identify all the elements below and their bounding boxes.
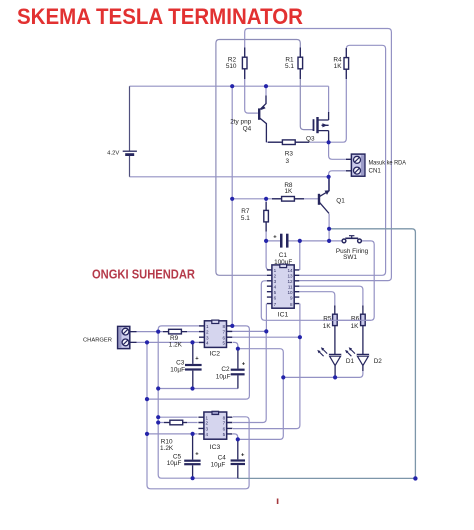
svg-text:Q4: Q4 [243, 126, 252, 133]
svg-text:4: 4 [206, 341, 209, 346]
wire: R8 row battery to Q1 base [232, 198, 318, 200]
svg-text:D1: D1 [346, 358, 355, 365]
node battery- / CN1 pin2 / Q1 collector junction [327, 175, 331, 179]
svg-text:+: + [242, 362, 246, 368]
svg-text:10µF: 10µF [167, 460, 182, 467]
resistor R2 [226, 57, 247, 70]
svg-text:10µF: 10µF [170, 367, 185, 374]
svg-text:2: 2 [274, 274, 277, 279]
wire: dark component leads [130, 48, 363, 479]
wire: x158 vertical to cap bottom rail [158, 332, 238, 479]
svg-text:4: 4 [274, 284, 277, 289]
LED D2 [345, 347, 382, 365]
svg-text:5.1: 5.1 [285, 63, 294, 70]
wire: R3 row Q3 source R4 bottom and CN1 pin1 link [266, 69, 347, 159]
node R8 row / VCC column junction [230, 197, 234, 201]
LED D1 [317, 347, 354, 365]
svg-text:10µF: 10µF [211, 462, 226, 469]
capacitor C2 [216, 362, 246, 381]
svg-text:R7: R7 [241, 208, 250, 215]
wire: SW1 right terminal to IC1 pin 3 [261, 241, 374, 320]
wire: IC2 pin 5 C2 top net to C4 top and IC3 pin 5 [233, 342, 283, 439]
svg-text:1: 1 [206, 415, 209, 420]
node IC3 pin4 row junction [145, 432, 149, 436]
svg-text:IC3: IC3 [210, 444, 221, 451]
node C3 top / IC2 pin4 junction [190, 340, 194, 344]
node charger pin2 junction [145, 340, 149, 344]
connector CHARGER [83, 326, 130, 348]
svg-text:1K: 1K [351, 323, 360, 330]
svg-text:11: 11 [288, 284, 293, 289]
wire: IC3 pin 4 row [147, 433, 198, 435]
svg-text:2: 2 [206, 421, 209, 426]
svg-text:D2: D2 [374, 358, 383, 365]
resistor R4 [333, 57, 348, 70]
node charger pin1 / R9 / IC2 pin1 junction [156, 330, 160, 334]
transistor Q1 [319, 177, 345, 214]
svg-text:1K: 1K [323, 323, 332, 330]
node cap rail left junction [156, 386, 160, 390]
resistor R5 [323, 314, 337, 330]
node Q3 source / R3 / R4 / CN1 junction [327, 140, 331, 144]
svg-text:C2: C2 [221, 366, 230, 373]
wire: C1 left to IC1 pin 1 riser [266, 241, 272, 270]
wire: R9 right lead to IC2 pin 2 [181, 331, 204, 333]
svg-text:5: 5 [223, 432, 226, 437]
wire: C1 right to IC1 pin 14 riser [299, 241, 301, 270]
svg-text:R5: R5 [323, 315, 332, 322]
node R10 / IC3 pin2 junction [156, 420, 160, 424]
node bottom-right corner junction [413, 476, 417, 480]
svg-text:2: 2 [206, 330, 209, 335]
capacitor C5 [167, 452, 201, 467]
node battery+ / VCC column junction [230, 84, 234, 88]
svg-text:3: 3 [286, 158, 290, 165]
wire: R2 bottom to Q4 base [245, 69, 258, 113]
node IC2 pin8 / VCC column junction [230, 324, 234, 328]
node IC1 pin8 / IC2 pin6 junction [298, 335, 302, 339]
resistor R7 [241, 208, 268, 222]
svg-text:C1: C1 [279, 252, 288, 259]
node D1 cathode junction [333, 375, 337, 379]
svg-text:1.2K: 1.2K [160, 445, 174, 452]
svg-text:5: 5 [274, 290, 277, 295]
wire: outer bracket R2 top to IC1 pin 12 [245, 29, 392, 281]
svg-text:6: 6 [223, 427, 226, 432]
capacitor C1 [273, 234, 292, 266]
svg-text:7: 7 [223, 421, 226, 426]
switch SW1 push firing [336, 236, 369, 261]
wire: battery plus rail to Q3 drain [130, 86, 329, 113]
svg-text:1: 1 [274, 268, 277, 273]
svg-text:Masuk ke RDA: Masuk ke RDA [369, 159, 407, 166]
svg-text:6: 6 [222, 335, 225, 340]
svg-text:R6: R6 [351, 315, 360, 322]
svg-text:1.2K: 1.2K [169, 341, 183, 348]
node R7 top / R8 junction [264, 197, 268, 201]
svg-text:CHARGER: CHARGER [83, 337, 112, 343]
svg-text:3: 3 [274, 279, 277, 284]
svg-text:SW1: SW1 [343, 254, 357, 261]
svg-text:6: 6 [274, 295, 277, 300]
svg-text:10µF: 10µF [216, 373, 231, 380]
red artifact mark [277, 499, 279, 505]
node C1 row / Q1 emitter junction [327, 239, 331, 243]
node R7 bottom / C1 left junction [264, 239, 268, 243]
svg-text:C3: C3 [176, 359, 185, 366]
wire: Q1 emitter line to right edge vertical and cap rail [238, 229, 416, 479]
svg-text:Q1: Q1 [336, 198, 345, 205]
svg-text:4.2V: 4.2V [107, 151, 119, 157]
title text [17, 4, 303, 29]
IC U1 (IC1, 14-pin DIP) [267, 264, 299, 319]
node Q1 emitter / teal line junction [327, 227, 331, 231]
svg-text:8: 8 [223, 415, 226, 420]
node LED rail / C2 net junction [281, 375, 285, 379]
svg-text:2ty pnp: 2ty pnp [230, 119, 251, 126]
node IC2 pin5 / C2 top junction [236, 347, 240, 351]
wire: IC3 pin 1 row [158, 416, 197, 418]
resistor R1 [285, 57, 303, 70]
svg-text:7: 7 [222, 330, 225, 335]
wire: charger pin1 row and IC2 pin 1 riser [130, 326, 205, 332]
svg-text:5.1: 5.1 [241, 215, 250, 222]
author text [92, 267, 196, 282]
svg-text:5: 5 [222, 341, 225, 346]
mosfet Q3 [306, 117, 329, 142]
wire: IC1 pin 11 to R6 top [299, 286, 363, 307]
wire: battery minus rail with CN1 pin2 link and Q1 collector riser [130, 171, 348, 191]
wire: R7 vertical risers [265, 199, 267, 241]
capacitor C3 [170, 356, 201, 374]
svg-text:1K: 1K [284, 188, 293, 195]
node Q4 emitter junction [264, 84, 268, 88]
wire: IC1 pin 7 net to IC2 pin 7 and IC3 pin 7 [227, 304, 267, 423]
svg-text:7: 7 [274, 302, 277, 307]
wire: IC2 pin 8 loop to charger net [147, 326, 249, 399]
svg-text:510: 510 [226, 63, 237, 70]
svg-text:+: + [195, 356, 199, 362]
connector CN1 [351, 154, 406, 176]
svg-text:R3: R3 [285, 151, 294, 158]
node IC1 pin7 / IC2 pin7 junction [264, 329, 268, 333]
svg-text:12: 12 [287, 279, 293, 284]
svg-text:3: 3 [206, 427, 209, 432]
resistor R3 [282, 140, 295, 165]
svg-text:9: 9 [290, 295, 293, 300]
svg-text:CN1: CN1 [369, 167, 382, 174]
node IC2 pin8 loop junction [145, 397, 149, 401]
IC U3 (IC3, 8-pin DIP) [198, 411, 232, 451]
transistor Q4 [230, 96, 266, 143]
svg-text:3: 3 [206, 335, 209, 340]
wire: C1 row to SW1 left [266, 240, 343, 242]
IC U2 (IC2, 8-pin DIP) [199, 320, 232, 358]
wire: Q4 emitter drop [265, 86, 267, 104]
battery 4.2V [107, 86, 137, 177]
node C5 bottom junction [191, 476, 195, 480]
wire: middle bracket IC1 pin 2 to R1 top and Q3 gate [216, 40, 313, 276]
svg-text:8: 8 [290, 302, 293, 307]
node C5 top junction [191, 432, 195, 436]
svg-text:C4: C4 [218, 455, 227, 462]
svg-text:1K: 1K [334, 63, 343, 70]
svg-text:+: + [195, 452, 199, 458]
svg-text:13: 13 [287, 274, 293, 279]
wire: right bracket R4 top to IC1 pin 13 [299, 45, 385, 275]
svg-text:4: 4 [206, 432, 209, 437]
svg-text:1: 1 [206, 324, 209, 329]
node C1 right / IC1 pin14 junction [298, 239, 302, 243]
svg-text:IC2: IC2 [210, 351, 221, 358]
svg-text:14: 14 [287, 268, 293, 273]
resistor R10 [160, 420, 183, 452]
wire: IC1 pin 8 riser to IC2 pin 6 and IC3 pin 6 [227, 304, 300, 429]
resistor R8 [282, 182, 295, 201]
wire: crossing segment over R5 R6 [327, 319, 371, 321]
svg-text:+: + [241, 452, 245, 458]
wire: charger pin2 vertical to bottom loop and IC3 pin 8 [147, 342, 249, 488]
resistor R9 [169, 329, 183, 348]
svg-text:Q3: Q3 [306, 135, 315, 142]
capacitor C4 [211, 452, 245, 468]
svg-text:ONGKI SUHENDAR: ONGKI SUHENDAR [92, 267, 196, 282]
wire: R10 row to IC3 pin 2 [158, 422, 197, 424]
resistor R6 [351, 314, 366, 330]
svg-text:SKEMA TESLA TERMINATOR: SKEMA TESLA TERMINATOR [17, 4, 303, 29]
node IC3 pin1 junction [156, 415, 160, 419]
svg-text:8: 8 [222, 324, 225, 329]
node C4 top / IC3 pin5 junction [236, 437, 240, 441]
wire: vcc vertical to IC2 pin 8 [231, 86, 233, 326]
wire: Q1 emitter riser [328, 214, 330, 241]
node C3 bottom junction [190, 386, 194, 390]
svg-text:IC1: IC1 [278, 312, 289, 319]
wire: charger pin2 row to IC2 pin 4 [130, 341, 205, 343]
wire: LED bottom rail [283, 366, 363, 377]
svg-text:10: 10 [287, 290, 293, 295]
wire: IC1 pin 10 to R5 top [299, 292, 335, 308]
wire: C3 C2 bottom rail [158, 388, 238, 390]
